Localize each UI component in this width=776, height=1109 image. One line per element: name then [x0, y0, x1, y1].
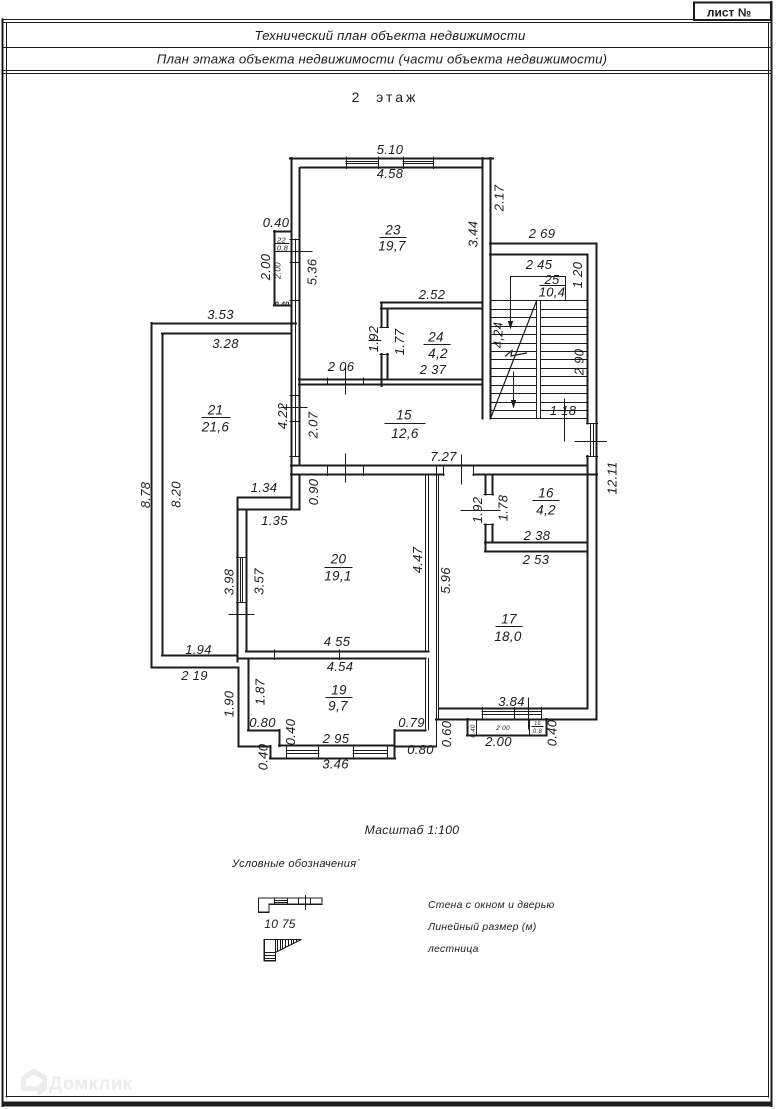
svg-text:19,7: 19,7: [378, 239, 406, 254]
room 20 window dim cross: [229, 614, 254, 616]
balcony 17 box: [467, 719, 547, 736]
svg-text:8.20: 8.20: [169, 481, 184, 508]
building outer line right of bay: [395, 746, 436, 748]
svg-text:Стена с окном и дверью: Стена с окном и дверью: [428, 900, 555, 911]
svg-text:4.22: 4.22: [275, 402, 290, 429]
svg-text:3.46: 3.46: [322, 757, 349, 772]
svg-text:10 75: 10 75: [264, 917, 296, 931]
dim 8.20: [169, 481, 184, 508]
svg-text:3.53: 3.53: [207, 307, 234, 322]
dim 4.55: [324, 634, 351, 649]
stair landing outline: [511, 277, 566, 301]
dim 0.90: [306, 478, 321, 505]
room 16 left wall: [486, 475, 493, 551]
corridor bottom wall upper: [291, 465, 588, 467]
room 20 label: [324, 552, 352, 584]
right window dim cross: [575, 441, 607, 443]
top window ticks: [347, 157, 434, 169]
legend text stairs: [427, 944, 479, 955]
bay outer walls: [270, 746, 395, 759]
room 21 left wall: [152, 323, 163, 668]
balcony 22 label: [273, 236, 289, 309]
room 21 label: [201, 403, 230, 435]
corridor dim line left: [281, 407, 307, 409]
dim 1.94: [185, 642, 212, 657]
svg-text:1 20: 1 20: [570, 261, 585, 288]
dim 3.57: [252, 568, 267, 595]
dim 3.46: [322, 757, 349, 772]
svg-text:2 19: 2 19: [180, 668, 208, 683]
legend text size: [427, 922, 537, 933]
room 19 left outer wall: [238, 668, 240, 747]
balcony 22 box: [274, 231, 291, 306]
svg-text:18,0: 18,0: [494, 629, 522, 644]
dim 1.87: [253, 678, 268, 705]
dim cross through balcony: [274, 251, 312, 253]
room 24 top wall: [381, 303, 482, 309]
dim 5.96: [438, 567, 453, 594]
room 17 label: [494, 612, 522, 645]
room 25 label: [539, 272, 566, 300]
legend size example: [264, 917, 296, 931]
room 21 bottom wall: [152, 656, 239, 668]
svg-text:3.98: 3.98: [222, 568, 237, 595]
svg-text:2 37: 2 37: [419, 362, 447, 377]
room 16 door ticks: [484, 495, 493, 525]
room 24 door dim line: [369, 340, 381, 342]
dim 1.92 r24: [366, 325, 381, 352]
svg-text:23: 23: [384, 223, 401, 238]
legend wall symbol: [258, 896, 322, 913]
svg-text:0.8: 0.8: [533, 729, 543, 735]
dim 0.40 bay: [256, 743, 271, 770]
svg-text:5.10: 5.10: [377, 142, 404, 157]
corridor top wall door jambs: [328, 378, 364, 385]
svg-text:1 18: 1 18: [550, 403, 577, 418]
dim 3.53: [207, 307, 234, 322]
stair bottom dim tick: [564, 399, 566, 441]
dim 8.78: [138, 481, 153, 508]
svg-text:2 06: 2 06: [327, 359, 355, 374]
room 20 bottom wall: [246, 651, 429, 653]
dim 3.98: [222, 568, 237, 595]
svg-text:2 53: 2 53: [522, 552, 550, 567]
dim 4.22: [275, 402, 290, 429]
dim 0.80 right: [407, 742, 434, 757]
stair stringer: [537, 301, 541, 419]
svg-text:1.35: 1.35: [261, 513, 288, 528]
dim 4.54: [327, 659, 354, 674]
title row 2 text: [157, 52, 608, 67]
room 20 window ticks: [237, 558, 248, 603]
svg-text:2.07: 2.07: [306, 411, 321, 439]
svg-text:1.92: 1.92: [366, 325, 381, 352]
room 19 bottom inner right: [395, 730, 426, 746]
svg-text:4.47: 4.47: [410, 546, 425, 573]
dim 0.40 balcony top: [263, 215, 290, 230]
room 19 door ticks: [275, 650, 340, 660]
dim 1 18: [550, 403, 577, 418]
svg-text:2 45: 2 45: [525, 257, 553, 272]
room 23 top wall inner: [301, 167, 482, 169]
svg-text:15: 15: [396, 408, 412, 423]
svg-text:16: 16: [538, 486, 554, 501]
svg-text:1.77: 1.77: [392, 328, 407, 355]
dim 135: [261, 513, 288, 528]
corridor dim tick top: [345, 366, 347, 394]
svg-text:9,7: 9,7: [328, 699, 348, 714]
legend stairs symbol: [264, 940, 301, 961]
svg-text:2 69: 2 69: [528, 226, 556, 241]
room 19 right wall: [426, 659, 429, 731]
dim 2.07: [306, 411, 321, 439]
svg-text:Линейный размер (м): Линейный размер (м): [427, 922, 537, 933]
room 23 top wall outer: [290, 158, 493, 160]
svg-text:2.00: 2.00: [484, 734, 512, 749]
dim 0.40 in19: [283, 718, 298, 745]
room 24 label: [424, 330, 450, 362]
svg-text:5.96: 5.96: [438, 567, 453, 594]
svg-text:1.34: 1.34: [251, 480, 278, 495]
room 16 door dim line: [461, 510, 500, 512]
step stub verticals: [292, 466, 300, 510]
svg-text:2.00: 2.00: [273, 262, 282, 280]
dim 2 69: [528, 226, 556, 241]
svg-text:1.94: 1.94: [185, 642, 212, 657]
dim 7.27: [430, 449, 457, 464]
svg-text:0.40: 0.40: [283, 718, 298, 745]
dim 2.00 balcony left: [258, 253, 273, 281]
top window glazing: [346, 162, 433, 164]
left wall window glazing: [295, 239, 297, 456]
svg-text:0.40: 0.40: [275, 302, 289, 309]
svg-text:2 38: 2 38: [523, 528, 551, 543]
room 23 right wall: [483, 158, 491, 419]
svg-text:3.57: 3.57: [252, 568, 267, 595]
dim 1.92 r16: [470, 496, 485, 523]
title row 1 text: [255, 28, 526, 43]
svg-text:3.28: 3.28: [212, 336, 239, 351]
svg-text:0.40: 0.40: [263, 215, 290, 230]
svg-text:17: 17: [501, 612, 517, 627]
svg-text:0.40: 0.40: [545, 719, 560, 746]
dim 3.44: [466, 221, 481, 248]
svg-text:1.78: 1.78: [496, 494, 511, 521]
room 20 step wall: [238, 498, 300, 510]
dim 2 95: [322, 731, 350, 746]
svg-text:24: 24: [427, 330, 444, 345]
svg-text:4.54: 4.54: [327, 659, 354, 674]
bay window ticks: [287, 746, 388, 759]
room 24 door ticks: [380, 328, 389, 355]
svg-text:2.52: 2.52: [418, 287, 446, 302]
dim 2.17: [492, 184, 507, 212]
room 16 bottom wall: [485, 543, 588, 552]
dim 2.00 balc: [484, 734, 512, 749]
dim 0.79: [398, 715, 425, 730]
svg-text:0.80: 0.80: [407, 742, 434, 757]
room 20 left wall: [238, 498, 247, 662]
room 19 label: [326, 683, 352, 714]
svg-text:Условные обозначенияˈ: Условные обозначенияˈ: [231, 858, 360, 870]
stair diagonal: [491, 301, 537, 419]
svg-text:3.44: 3.44: [466, 221, 481, 248]
svg-text:20: 20: [330, 552, 347, 567]
dim 3.84: [498, 694, 525, 709]
svg-text:2 90: 2 90: [572, 348, 587, 376]
dim 4.47: [410, 546, 425, 573]
scale caption: [365, 823, 460, 837]
svg-text:0.90: 0.90: [306, 478, 321, 505]
left wall window ticks: [290, 240, 300, 457]
corridor dim tick bottom: [345, 454, 347, 482]
svg-text:лестница: лестница: [427, 944, 479, 955]
svg-text:21,6: 21,6: [201, 420, 230, 435]
dim 3.28: [212, 336, 239, 351]
room 17 bottom window glazing: [482, 712, 541, 715]
svg-text:4 55: 4 55: [324, 634, 351, 649]
dim 0.40 balc right: [545, 719, 560, 746]
room 17 bottom wall: [436, 709, 597, 720]
block 16-17 left wall: [437, 466, 439, 747]
dim 2 19: [180, 668, 208, 683]
room 16 label: [533, 486, 559, 518]
svg-text:19: 19: [331, 683, 347, 698]
svg-text:0.79: 0.79: [398, 715, 425, 730]
room 20 window glazing: [241, 558, 243, 603]
svg-text:12.11: 12.11: [605, 461, 620, 494]
svg-text:10,4: 10,4: [539, 285, 566, 300]
dim 2 38: [523, 528, 551, 543]
svg-text:План этажа объекта недвижимост: План этажа объекта недвижимости (части о…: [157, 52, 608, 67]
balcony 17 tiny labels: [470, 721, 543, 738]
right wall window glazing: [591, 424, 594, 457]
svg-text:19,1: 19,1: [324, 569, 351, 584]
svg-text:2.00: 2.00: [258, 253, 273, 281]
svg-text:7.27: 7.27: [430, 449, 457, 464]
legend heading: [231, 858, 360, 870]
dim 1 20: [570, 261, 585, 288]
svg-text:0.80: 0.80: [249, 715, 276, 730]
watermark domclick: [21, 1069, 133, 1096]
dim 0.80 left: [249, 715, 276, 730]
svg-text:0.40: 0.40: [256, 743, 271, 770]
title table lines: [3, 20, 772, 74]
stair break mark: [506, 351, 527, 357]
bay window glazing: [286, 751, 387, 754]
dim 5.36: [305, 258, 320, 285]
dim 1.77 r24: [392, 328, 407, 355]
room 17 bottom window ticks: [483, 708, 542, 720]
dim 2 37: [419, 362, 447, 377]
stair arrow up-flight: [508, 277, 513, 330]
svg-text:Технический план объекта недви: Технический план объекта недвижимости: [255, 28, 526, 43]
dim 0.60: [439, 720, 454, 747]
dim 2 06: [327, 359, 355, 374]
corridor bottom wall lower: [291, 474, 597, 476]
room 23 left wall: [292, 158, 300, 466]
svg-text:1.90: 1.90: [222, 690, 237, 717]
room 19 top wall: [239, 658, 426, 660]
room 23 label: [378, 223, 406, 254]
dim 2.52: [418, 287, 446, 302]
corridor bottom wall jambs 2: [328, 465, 364, 475]
dim 4,24: [491, 322, 506, 349]
dim 12.11: [605, 461, 620, 494]
room 19 left inner wall: [248, 659, 250, 731]
bay top line: [279, 745, 395, 747]
svg-text:8.78: 8.78: [138, 481, 153, 508]
sheet-number box: [694, 3, 771, 21]
svg-text:12,6: 12,6: [391, 426, 419, 441]
dim 4.58: [377, 166, 404, 181]
floor caption: [352, 89, 419, 105]
room 19 bottom inner left: [248, 730, 280, 746]
dim 5.10: [377, 142, 404, 157]
svg-text:2 95: 2 95: [322, 731, 350, 746]
dim 1.90: [222, 690, 237, 717]
svg-text:2 00: 2 00: [495, 725, 510, 732]
svg-text:лист №: лист №: [707, 6, 751, 20]
legend text wall: [428, 900, 555, 911]
dim 1.34: [251, 480, 278, 495]
svg-text:2 этаж: 2 этаж: [352, 89, 419, 105]
stair treads: [491, 301, 588, 419]
corridor door tick b: [461, 455, 463, 484]
svg-text:4,2: 4,2: [428, 346, 448, 361]
svg-text:21: 21: [207, 403, 224, 418]
dim 1.78: [496, 494, 511, 521]
room 20 right wall: [426, 475, 429, 651]
svg-text:1.92: 1.92: [470, 496, 485, 523]
right outer wall: [588, 244, 597, 720]
svg-text:5.36: 5.36: [305, 258, 320, 285]
room 21 top wall: [152, 324, 297, 334]
svg-text:1.87: 1.87: [253, 678, 268, 705]
svg-text:4.58: 4.58: [377, 166, 404, 181]
stairwell top wall: [490, 244, 597, 255]
corridor top wall: [299, 380, 482, 385]
corridor bottom door jambs: [444, 466, 474, 476]
building outer line left of bay: [238, 746, 270, 748]
dim 2 45: [525, 257, 553, 272]
room 24 left wall: [382, 303, 388, 387]
svg-text:4,2: 4,2: [536, 503, 556, 518]
dim 2 53: [522, 552, 550, 567]
svg-text:0.60: 0.60: [439, 720, 454, 747]
right wall window ticks: [587, 424, 598, 457]
room 15 label: [385, 408, 425, 442]
room 17 window dim line: [528, 698, 530, 729]
stair arrow down-flight: [511, 372, 516, 409]
svg-text:4,24: 4,24: [491, 322, 506, 349]
svg-text:Масштаб 1:100: Масштаб 1:100: [365, 823, 460, 837]
svg-text:2.17: 2.17: [492, 184, 507, 212]
dim 2 90: [572, 348, 587, 376]
svg-text:3.84: 3.84: [498, 694, 525, 709]
svg-text:0.40: 0.40: [470, 724, 477, 738]
svg-text:Домклик: Домклик: [49, 1073, 133, 1094]
